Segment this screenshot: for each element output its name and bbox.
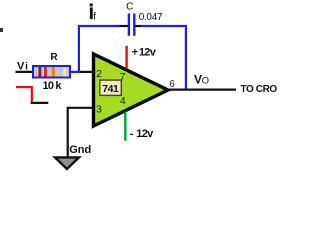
svg-text:V: V bbox=[17, 61, 25, 73]
+12v supply wire (red) bbox=[125, 46, 127, 69]
resistor R band 3 bbox=[52, 67, 55, 77]
wire: output pin 6 to CRO (black) bbox=[166, 88, 236, 90]
resistor R body bbox=[33, 66, 70, 78]
svg-text:10 k: 10 k bbox=[43, 80, 63, 92]
svg-text:f: f bbox=[93, 11, 96, 22]
svg-text:i: i bbox=[25, 62, 28, 73]
input waveform step (black part) bbox=[31, 102, 49, 104]
svg-text:4: 4 bbox=[120, 95, 126, 107]
resistor R band 4 (tolerance) bbox=[63, 67, 66, 77]
svg-text:R: R bbox=[50, 52, 58, 63]
input waveform step (red part) bbox=[16, 87, 32, 103]
op-amp 741 label box bbox=[100, 80, 122, 95]
capacitor C left lead (black) bbox=[120, 25, 129, 27]
svg-text:O: O bbox=[202, 75, 209, 86]
svg-text:2: 2 bbox=[96, 68, 102, 80]
ground symbol bbox=[55, 157, 79, 169]
svg-text:Gnd: Gnd bbox=[69, 144, 91, 156]
svg-text:7: 7 bbox=[120, 71, 126, 83]
svg-text:TO CRO: TO CRO bbox=[241, 84, 278, 95]
svg-text:-: - bbox=[130, 128, 134, 140]
wire: feedback left vertical + top rail (blue) bbox=[79, 26, 120, 72]
svg-text:C: C bbox=[126, 2, 134, 13]
resistor R band 1 bbox=[39, 67, 42, 77]
wire: op-amp pin 3 to ground (black) bbox=[68, 108, 94, 157]
capacitor C plates bbox=[128, 14, 130, 36]
resistor R band 2 bbox=[44, 67, 47, 77]
svg-text:6: 6 bbox=[169, 79, 175, 90]
-12v supply wire (green) bbox=[124, 112, 126, 141]
svg-text:12v: 12v bbox=[139, 46, 157, 58]
svg-text:0.047: 0.047 bbox=[139, 12, 163, 23]
svg-text:3: 3 bbox=[96, 103, 102, 115]
svg-text:741: 741 bbox=[102, 83, 119, 95]
svg-text:+: + bbox=[132, 46, 138, 58]
wire: top rail right of capacitor + right vertical (blue) bbox=[140, 26, 186, 90]
wire: resistor to feedback node (blue) bbox=[70, 71, 80, 73]
svg-text:12v: 12v bbox=[136, 128, 154, 140]
capacitor C right lead (black) bbox=[135, 25, 140, 27]
wire: node to op-amp pin 2 (black) bbox=[80, 71, 94, 73]
label If (current) : dot + stem + f bbox=[90, 3, 93, 6]
wire: input Vi to resistor (black) bbox=[16, 71, 34, 73]
stray mark at left edge bbox=[0, 28, 3, 32]
op-amp U1 741 triangle bbox=[94, 54, 169, 126]
